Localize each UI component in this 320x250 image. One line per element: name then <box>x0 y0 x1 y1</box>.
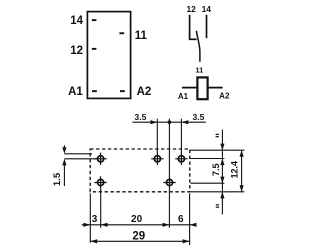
svg-text:3: 3 <box>92 214 98 225</box>
relay coil <box>197 77 207 99</box>
wire to A1 <box>182 87 198 89</box>
bottom dimension row 29 <box>90 239 189 243</box>
svg-text:1.5: 1.5 <box>52 172 63 186</box>
svg-text:A2: A2 <box>137 86 152 98</box>
svg-text:3.5: 3.5 <box>192 112 204 122</box>
dimension text 1.5 (rotated) <box>52 172 63 186</box>
svg-text:A2: A2 <box>219 91 230 100</box>
bottom dimension row 3/20/6 <box>82 223 197 227</box>
svg-text:A1: A1 <box>68 86 83 98</box>
mounting hole top-middle <box>151 153 163 165</box>
schematic label A1 <box>178 92 189 101</box>
dimension line 12.4 <box>240 150 244 192</box>
footprint outline (dashed) <box>90 149 190 192</box>
left dimension 1.5 <box>62 145 97 186</box>
label 14 <box>70 15 83 27</box>
dimension text 29 <box>132 231 145 243</box>
svg-text:11: 11 <box>135 30 148 42</box>
schematic label A2 <box>219 91 230 100</box>
svg-text:14: 14 <box>70 15 83 27</box>
svg-text:11: 11 <box>195 66 203 75</box>
pin 12 mark <box>92 48 97 50</box>
pin A2 mark <box>120 90 125 92</box>
schematic label 11 <box>195 66 203 75</box>
svg-text:12: 12 <box>186 4 196 14</box>
dimension text 3.5 right <box>192 112 204 122</box>
dimension text 3.5 left <box>134 112 146 122</box>
top dimension line 3.5/3.5 <box>132 119 205 178</box>
pin 14 mark <box>92 19 97 21</box>
dimension text 20 <box>131 214 143 225</box>
movable contact arm <box>196 31 200 62</box>
svg-text:A1: A1 <box>178 92 189 101</box>
label A1 <box>68 86 83 98</box>
pin 11 mark <box>119 32 124 34</box>
pin A1 mark <box>92 90 97 92</box>
equal mark bottom <box>216 204 219 208</box>
right extension lines <box>190 150 244 192</box>
svg-text:12.4: 12.4 <box>229 161 239 179</box>
label 11 <box>135 30 148 42</box>
svg-text:3.5: 3.5 <box>134 112 146 122</box>
mounting hole bottom-right <box>163 176 175 188</box>
terminal 12 lead wire <box>189 15 191 40</box>
dimension text 7.5 (rotated) <box>211 163 221 176</box>
dimension text 12.4 (rotated) <box>229 161 239 179</box>
svg-text:7.5: 7.5 <box>211 163 221 176</box>
bottom extension lines <box>90 189 189 245</box>
svg-text:12: 12 <box>70 45 83 57</box>
relay pin-view outline <box>87 12 130 99</box>
svg-text:20: 20 <box>131 214 143 225</box>
svg-text:14: 14 <box>202 4 212 14</box>
mounting hole top-right <box>175 153 187 165</box>
mounting hole top-left <box>94 153 106 165</box>
label 12 <box>70 45 83 57</box>
terminal 12 fixed contact foot <box>189 38 197 40</box>
dimension text 3 <box>92 214 98 225</box>
svg-text:6: 6 <box>178 214 184 225</box>
terminal 14 lead wire <box>206 15 208 38</box>
label A2 <box>137 86 152 98</box>
schematic label 14 <box>202 4 212 14</box>
wire to A2 <box>208 87 223 89</box>
dimension text 6 <box>178 214 184 225</box>
equal mark top <box>216 134 219 138</box>
svg-text:29: 29 <box>132 231 145 243</box>
dimension line 7.5 with equal marks <box>220 130 224 215</box>
mounting hole bottom-left <box>94 176 106 188</box>
schematic label 12 <box>186 4 196 14</box>
